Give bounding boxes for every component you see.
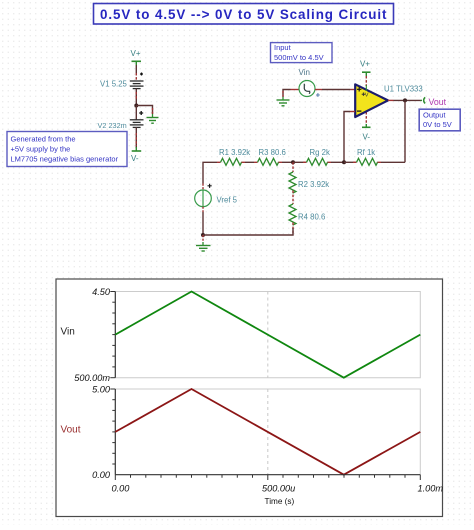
Vin y-axis: [110, 292, 115, 378]
svg-text:1.00m: 1.00m: [418, 484, 444, 494]
wire Rf to feedback vertical: [378, 161, 406, 163]
junction dot (output node): [403, 98, 407, 102]
wire junction to V2: [135, 106, 137, 120]
wire V2 to V-: [135, 127, 137, 148]
Vout y-axis: [110, 389, 115, 475]
resistor Rg: [307, 158, 328, 165]
wire node B to Rf: [344, 161, 357, 163]
svg-text:500.00u: 500.00u: [262, 484, 295, 494]
wire ground to Vin source: [283, 90, 299, 98]
resistor R3: [258, 158, 279, 165]
pin R4 bottom: [292, 223, 294, 236]
pin Vref top: [202, 184, 204, 191]
svg-text:Vin: Vin: [61, 327, 75, 338]
svg-text:+5V supply by the: +5V supply by the: [11, 145, 71, 154]
trace Vout: [115, 389, 420, 475]
pin op-amp V+: [365, 76, 367, 86]
svg-text:Output: Output: [423, 111, 446, 120]
junction dot node A (R3/Rg/R2): [291, 160, 295, 164]
svg-text:V-: V-: [363, 133, 371, 142]
junction dot node B (Rg/Rf/minus): [342, 160, 346, 164]
x-axis: [115, 475, 420, 480]
resistor Rf: [357, 158, 378, 165]
svg-text:5.00: 5.00: [92, 384, 111, 394]
svg-text:R2 3.92k: R2 3.92k: [298, 180, 329, 189]
gridline 500u dashed: [267, 292, 269, 475]
battery V1: [130, 73, 144, 89]
pin ground stub: [202, 235, 204, 242]
svg-text:4.50: 4.50: [92, 287, 111, 297]
svg-text:500mV to 4.5V: 500mV to 4.5V: [274, 53, 324, 62]
node V+ (op-amp supply): [360, 60, 371, 77]
junction dot (V1/V2 midpoint): [134, 104, 138, 108]
plot outer box: [56, 279, 443, 517]
wire V1 to junction: [135, 89, 137, 106]
op-amp U1: [355, 84, 388, 117]
svg-text:Vout: Vout: [61, 424, 81, 435]
svg-text:V1 5.25: V1 5.25: [100, 80, 128, 89]
svg-text:V+: V+: [360, 60, 370, 69]
pin R2 top: [292, 162, 294, 172]
annotation box Output: [419, 109, 460, 131]
svg-text:V+: V+: [131, 49, 141, 58]
svg-text:Vref 5: Vref 5: [217, 196, 238, 205]
svg-text:Rf 1k: Rf 1k: [357, 148, 375, 157]
wire R3 to node A: [279, 161, 294, 163]
wire R1 to R3: [242, 161, 258, 163]
svg-text:Generated from the: Generated from the: [11, 135, 76, 144]
svg-text:V2 232m: V2 232m: [98, 121, 127, 130]
wire feedback vertical (output to Rf): [404, 100, 406, 162]
svg-text:0.5V to 4.5V --> 0V to 5V Scal: 0.5V to 4.5V --> 0V to 5V Scaling Circui…: [100, 7, 387, 22]
svg-text:0.00: 0.00: [112, 484, 131, 494]
source Vref 5: [195, 190, 212, 207]
trace Vin: [115, 292, 420, 378]
wire V+ to V1: [135, 65, 137, 80]
svg-text:R3 80.6: R3 80.6: [259, 148, 286, 157]
Vin subplot frame: [115, 292, 420, 378]
resistor R1: [221, 158, 242, 165]
wire Vref bottom to ground rail: [202, 207, 204, 235]
battery V2 polarity +: [139, 111, 143, 115]
svg-text:U1 TLV333: U1 TLV333: [384, 85, 423, 94]
Vout axis labels: [92, 384, 111, 480]
svg-text:Vout: Vout: [429, 97, 447, 107]
pin op-amp V-: [362, 112, 371, 127]
svg-text:Rg 2k: Rg 2k: [310, 148, 330, 157]
svg-text:0.00: 0.00: [92, 470, 111, 480]
svg-text:R4 80.6: R4 80.6: [298, 213, 325, 222]
wire node A to Rg: [293, 161, 307, 163]
junction dot (ground rail): [201, 233, 205, 237]
terminal Vout: [421, 97, 426, 103]
title box: [94, 4, 394, 25]
wire Rg to node B: [328, 161, 345, 163]
annotation box LM7705: [7, 132, 127, 167]
svg-text:LM7705 negative bias generator: LM7705 negative bias generator: [11, 155, 119, 164]
svg-text:V-: V-: [131, 154, 139, 163]
svg-text:V: V: [365, 93, 369, 99]
x-axis labels: [112, 484, 444, 506]
wire bottom rail to R4: [203, 228, 293, 235]
wire R2 to R4: [292, 191, 294, 205]
wire Vin to op-amp +: [315, 89, 355, 91]
svg-text:500.00m: 500.00m: [74, 373, 110, 383]
ground (mid supply): [147, 114, 159, 123]
Vin axis labels: [74, 287, 111, 383]
Vout subplot frame: [115, 389, 420, 475]
source Vin (generator): [299, 81, 320, 97]
svg-text:Vin: Vin: [299, 68, 310, 77]
ground (Vref rail): [196, 242, 211, 251]
wire op-amp output: [388, 99, 421, 101]
ground (Vin source): [277, 97, 290, 106]
svg-text:0V to 5V: 0V to 5V: [423, 120, 452, 129]
node V+ (left supply): [131, 49, 142, 65]
svg-text:Time (s): Time (s): [265, 497, 295, 506]
resistor R4 (vertical): [289, 204, 296, 225]
battery V2: [130, 120, 144, 128]
wire junction to mid ground: [136, 106, 152, 115]
svg-text:Input: Input: [274, 43, 292, 52]
resistor R2 (vertical): [289, 172, 296, 193]
source Vref polarity +: [208, 184, 212, 188]
node V- (left supply): [131, 147, 141, 163]
wire op-amp minus to feedback node: [344, 112, 355, 163]
annotation box Input: [271, 43, 333, 63]
svg-text:R1 3.92k: R1 3.92k: [219, 148, 250, 157]
wire row left (Vref top corner to R1): [203, 162, 221, 183]
